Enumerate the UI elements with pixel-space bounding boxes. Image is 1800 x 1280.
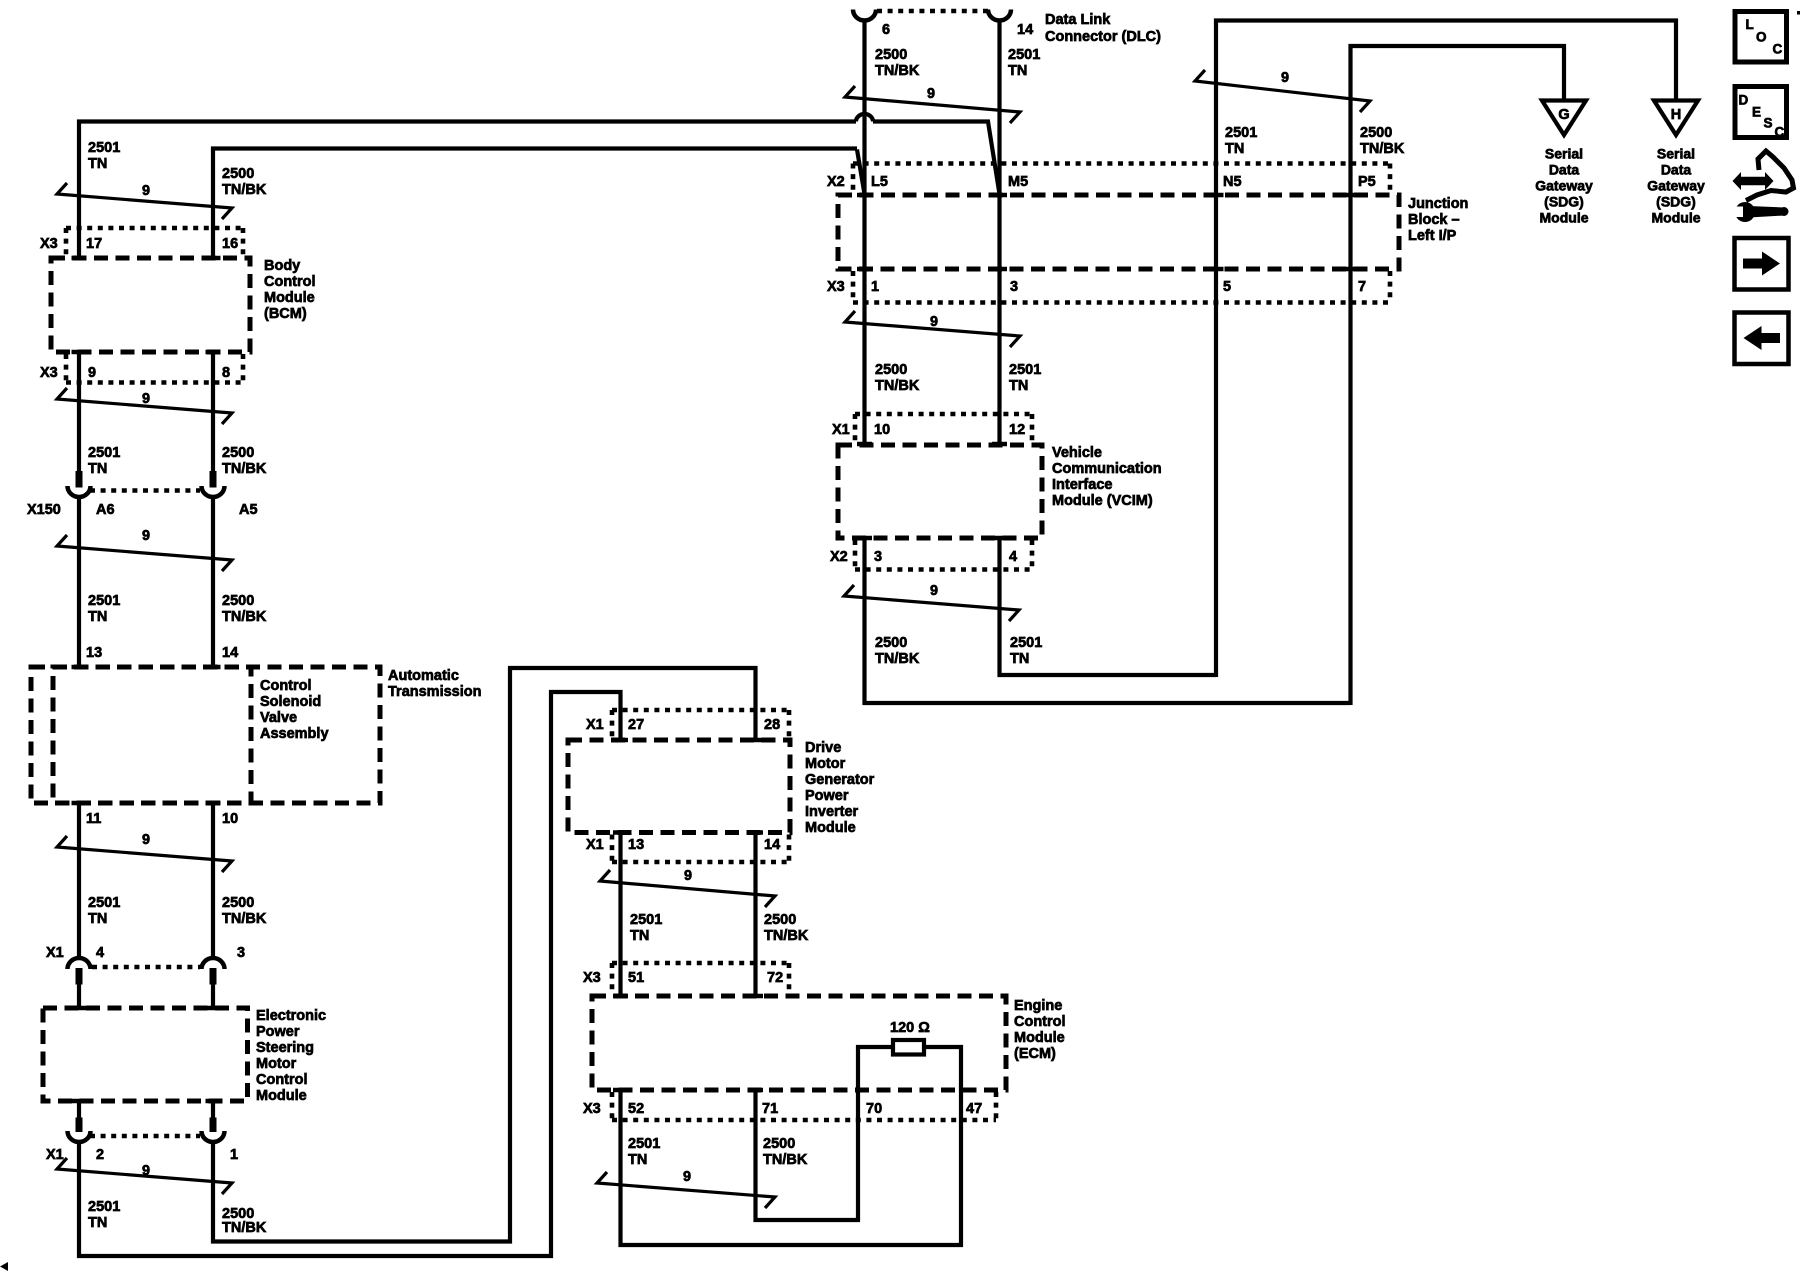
svg-text:28: 28 [764,717,780,733]
svg-text:47: 47 [966,1101,982,1117]
svg-text:TN/BK: TN/BK [222,182,267,198]
svg-text:H: H [1671,107,1681,123]
svg-text:9: 9 [142,391,150,407]
svg-text:Data: Data [1549,162,1580,178]
svg-text:9: 9 [930,314,938,330]
svg-text:Electronic: Electronic [256,1008,326,1024]
svg-text:(ECM): (ECM) [1014,1046,1056,1062]
svg-text:TN: TN [1010,651,1029,667]
svg-text:9: 9 [142,1163,150,1179]
svg-text:Power: Power [256,1024,300,1040]
svg-text:Connector (DLC): Connector (DLC) [1045,29,1161,45]
svg-text:Block –: Block – [1408,212,1460,228]
svg-text:11: 11 [86,811,101,827]
svg-text:9: 9 [683,1169,691,1185]
svg-text:TN/BK: TN/BK [764,928,809,944]
svg-text:Control: Control [256,1072,308,1088]
svg-text:TN: TN [628,1152,647,1168]
svg-text:2501: 2501 [88,895,120,911]
svg-text:Valve: Valve [260,710,297,726]
svg-text:TN/BK: TN/BK [763,1152,808,1168]
svg-text:TN: TN [88,461,107,477]
svg-text:E: E [1752,105,1761,120]
svg-text:Gateway: Gateway [1647,178,1705,194]
svg-text:14: 14 [222,645,238,661]
svg-text:2500: 2500 [764,912,796,928]
svg-text:7: 7 [1358,279,1366,295]
svg-text:Control: Control [1014,1014,1066,1030]
svg-text:A5: A5 [239,502,258,518]
svg-text:2501: 2501 [88,140,120,156]
svg-text:9: 9 [684,868,692,884]
svg-text:2501: 2501 [628,1136,660,1152]
svg-text:2501: 2501 [1010,635,1042,651]
svg-text:X150: X150 [27,502,61,518]
svg-text:2501: 2501 [88,1199,120,1215]
svg-text:Transmission: Transmission [388,684,481,700]
svg-text:1: 1 [230,1147,238,1163]
svg-text:(SDG): (SDG) [1544,194,1584,210]
svg-text:2500: 2500 [763,1136,795,1152]
svg-text:TN: TN [88,609,107,625]
svg-text:C: C [1775,125,1785,140]
svg-text:P5: P5 [1358,174,1376,190]
svg-text:TN/BK: TN/BK [222,461,267,477]
svg-text:120 Ω: 120 Ω [890,1020,930,1036]
svg-text:2: 2 [96,1147,104,1163]
svg-text:X1: X1 [832,422,850,438]
svg-text:Engine: Engine [1014,998,1062,1014]
svg-text:Interface: Interface [1052,477,1112,493]
svg-text:TN: TN [1009,378,1028,394]
svg-text:D: D [1739,93,1749,108]
svg-text:9: 9 [142,528,150,544]
svg-text:Serial: Serial [1545,146,1583,162]
svg-text:2501: 2501 [1009,362,1041,378]
svg-text:TN: TN [1225,141,1244,157]
svg-text:10: 10 [874,422,890,438]
svg-text:Module: Module [1014,1030,1065,1046]
svg-text:Control: Control [260,678,312,694]
svg-text:X3: X3 [40,236,58,252]
svg-text:Steering: Steering [256,1040,314,1056]
svg-text:51: 51 [628,970,644,986]
svg-text:Gateway: Gateway [1535,178,1593,194]
svg-text:X2: X2 [827,174,845,190]
svg-text:TN/BK: TN/BK [875,651,920,667]
svg-text:TN: TN [88,1215,107,1231]
svg-text:Communication: Communication [1052,461,1162,477]
svg-text:Automatic: Automatic [388,668,459,684]
svg-text:2501: 2501 [1225,125,1257,141]
svg-text:10: 10 [222,811,238,827]
svg-text:G: G [1558,107,1569,123]
svg-text:Assembly: Assembly [260,726,329,742]
svg-text:Vehicle: Vehicle [1052,445,1102,461]
svg-text:X1: X1 [586,837,604,853]
svg-text:X3: X3 [827,279,845,295]
svg-text:A6: A6 [96,502,115,518]
svg-text:Solenoid: Solenoid [260,694,321,710]
svg-text:12: 12 [1009,422,1025,438]
svg-text:N5: N5 [1223,174,1242,190]
svg-text:1: 1 [871,279,879,295]
svg-text:27: 27 [628,717,644,733]
svg-text:52: 52 [628,1101,644,1117]
svg-text:16: 16 [222,236,238,252]
svg-text:2500: 2500 [222,895,254,911]
svg-text:4: 4 [96,945,104,961]
svg-text:2500: 2500 [222,593,254,609]
svg-text:TN/BK: TN/BK [875,378,920,394]
svg-text:17: 17 [86,236,102,252]
svg-text:Serial: Serial [1657,146,1695,162]
svg-text:L5: L5 [871,174,888,190]
svg-text:TN: TN [88,911,107,927]
svg-text:Motor: Motor [256,1056,297,1072]
svg-text:3: 3 [1010,279,1018,295]
svg-text:X3: X3 [40,365,58,381]
svg-text:L: L [1746,17,1754,32]
svg-text:5: 5 [1223,279,1231,295]
svg-text:9: 9 [1281,70,1289,86]
svg-text:Junction: Junction [1408,196,1468,212]
svg-text:14: 14 [764,837,780,853]
svg-text:13: 13 [628,837,644,853]
svg-text:X1: X1 [46,1147,64,1163]
svg-text:9: 9 [142,183,150,199]
svg-text:(SDG): (SDG) [1656,194,1696,210]
svg-text:9: 9 [930,583,938,599]
svg-text:2501: 2501 [1008,47,1040,63]
svg-text:TN: TN [88,156,107,172]
svg-text:8: 8 [222,365,230,381]
svg-text:S: S [1764,116,1773,131]
svg-text:2501: 2501 [88,593,120,609]
svg-text:3: 3 [237,945,245,961]
svg-text:4: 4 [1009,549,1017,565]
svg-text:13: 13 [86,645,102,661]
svg-text:6: 6 [882,22,890,38]
svg-text:Module: Module [264,290,315,306]
svg-text:2500: 2500 [1360,125,1392,141]
svg-text:M5: M5 [1008,174,1028,190]
svg-text:2500: 2500 [875,362,907,378]
svg-text:Body: Body [264,258,300,274]
svg-text:X3: X3 [583,1101,601,1117]
svg-text:2500: 2500 [222,166,254,182]
svg-text:X3: X3 [583,970,601,986]
svg-text:TN: TN [630,928,649,944]
svg-text:Module: Module [256,1088,307,1104]
svg-text:Motor: Motor [805,756,846,772]
svg-text:2500: 2500 [875,635,907,651]
svg-text:2501: 2501 [630,912,662,928]
svg-text:2500: 2500 [875,47,907,63]
svg-text:Control: Control [264,274,316,290]
svg-text:71: 71 [762,1101,778,1117]
svg-text:14: 14 [1017,22,1033,38]
svg-text:Module: Module [1540,210,1589,226]
svg-text:Data Link: Data Link [1045,12,1111,28]
svg-text:Module (VCIM): Module (VCIM) [1052,493,1153,509]
svg-text:Left I/P: Left I/P [1408,228,1457,244]
svg-text:Module: Module [1652,210,1701,226]
svg-text:70: 70 [866,1101,882,1117]
svg-text:TN: TN [1008,63,1027,79]
svg-text:TN/BK: TN/BK [875,63,920,79]
svg-text:Generator: Generator [805,772,875,788]
svg-text:TN/BK: TN/BK [222,609,267,625]
svg-text:9: 9 [88,365,96,381]
svg-text:Power: Power [805,788,849,804]
svg-text:72: 72 [767,970,783,986]
svg-text:X2: X2 [830,549,848,565]
svg-text:Drive: Drive [805,740,841,756]
svg-text:X1: X1 [586,717,604,733]
svg-text:O: O [1756,30,1767,45]
svg-text:C: C [1773,42,1783,57]
svg-text:TN/BK: TN/BK [222,911,267,927]
svg-text:2500: 2500 [222,445,254,461]
svg-text:9: 9 [927,86,935,102]
svg-text:9: 9 [142,832,150,848]
svg-text:(BCM): (BCM) [264,306,307,322]
svg-text:TN/BK: TN/BK [222,1220,267,1236]
svg-text:TN/BK: TN/BK [1360,141,1405,157]
svg-text:3: 3 [874,549,882,565]
svg-text:Inverter: Inverter [805,804,859,820]
svg-text:Module: Module [805,820,856,836]
svg-text:2501: 2501 [88,445,120,461]
svg-text:Data: Data [1661,162,1692,178]
svg-text:X1: X1 [46,945,64,961]
